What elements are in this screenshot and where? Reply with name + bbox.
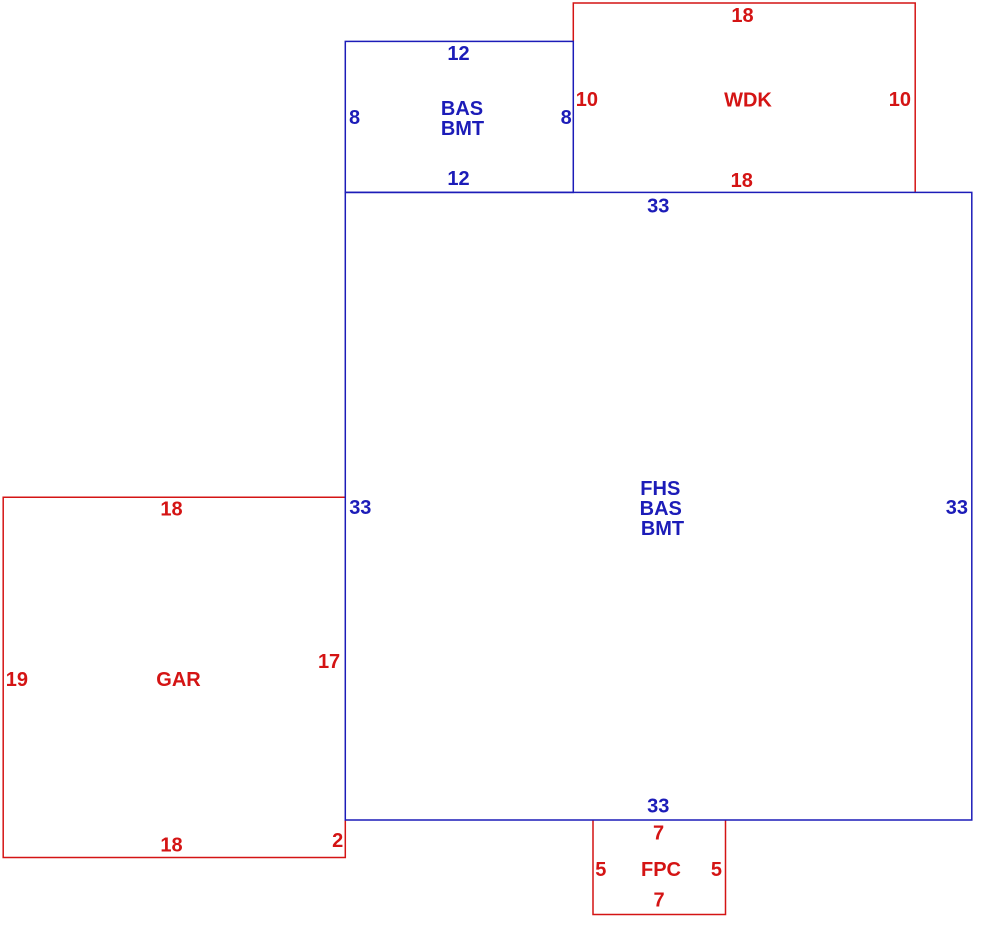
svg-text:WDK: WDK <box>724 89 772 111</box>
svg-text:7: 7 <box>653 822 664 844</box>
svg-text:5: 5 <box>711 859 722 881</box>
svg-text:18: 18 <box>731 5 753 27</box>
svg-text:FPC: FPC <box>641 859 681 881</box>
svg-text:BMT: BMT <box>641 518 684 540</box>
svg-text:8: 8 <box>561 107 572 129</box>
svg-text:BAS: BAS <box>640 498 682 520</box>
svg-text:10: 10 <box>889 89 911 111</box>
svg-text:18: 18 <box>731 170 753 192</box>
svg-text:33: 33 <box>946 497 968 519</box>
svg-text:12: 12 <box>447 168 469 190</box>
svg-text:17: 17 <box>318 651 340 673</box>
svg-text:BMT: BMT <box>441 118 484 140</box>
svg-text:12: 12 <box>447 43 469 65</box>
svg-text:33: 33 <box>647 195 669 217</box>
svg-text:5: 5 <box>595 859 606 881</box>
svg-text:2: 2 <box>332 830 343 852</box>
svg-text:10: 10 <box>576 89 598 111</box>
svg-text:BAS: BAS <box>441 98 483 120</box>
svg-text:8: 8 <box>349 107 360 129</box>
svg-text:33: 33 <box>349 497 371 519</box>
svg-text:FHS: FHS <box>640 478 680 500</box>
svg-text:GAR: GAR <box>156 669 201 691</box>
svg-text:19: 19 <box>6 669 28 691</box>
svg-text:33: 33 <box>647 795 669 817</box>
svg-text:18: 18 <box>160 835 182 857</box>
svg-text:7: 7 <box>653 889 664 911</box>
svg-text:18: 18 <box>160 499 182 521</box>
